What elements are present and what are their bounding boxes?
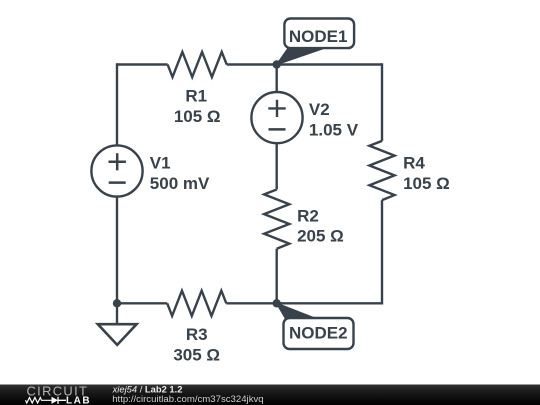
wire bottom-left segment (ground node to R3) — [117, 302, 167, 304]
V2 plus sign — [268, 100, 285, 117]
wire top-left horizontal segment — [117, 63, 168, 65]
voltage source V1 — [91, 145, 142, 196]
wire ground stub — [116, 303, 118, 324]
svg-text:R1: R1 — [185, 86, 207, 105]
svg-text:R4: R4 — [403, 154, 425, 173]
wire bottom-right segment (R3 to bottom-right corner through NODE2) — [226, 302, 382, 304]
NODE1 callout box — [284, 19, 354, 49]
svg-text:R3: R3 — [186, 325, 208, 344]
V2 minus sign — [269, 128, 286, 131]
node junction dot NODE2 — [273, 299, 281, 307]
svg-text:LAB: LAB — [66, 395, 91, 405]
svg-text:http://circuitlab.com/cm37sc32: http://circuitlab.com/cm37sc324jkvq — [112, 394, 263, 405]
wire left rail upper (top corner to V1) — [116, 63, 118, 145]
resistor R2 — [264, 190, 289, 249]
svg-text:NODE2: NODE2 — [289, 323, 348, 342]
svg-text:105 Ω: 105 Ω — [403, 174, 450, 193]
wire left rail lower (V1 to ground node) — [116, 197, 118, 304]
footer bar — [0, 385, 540, 405]
V1 minus sign — [109, 181, 126, 184]
CircuitLab logo resistor zigzag — [26, 398, 52, 404]
wire right rail upper (top-right corner to R4) — [381, 63, 383, 141]
NODE1 callout tail — [277, 49, 323, 65]
svg-text:105 Ω: 105 Ω — [174, 107, 221, 126]
svg-text:xiej54 / Lab2 1.2: xiej54 / Lab2 1.2 — [112, 384, 183, 395]
wire middle rail mid (V2 to R2) — [276, 143, 278, 189]
wire middle rail lower (R2 to NODE2) — [276, 249, 278, 304]
resistor R1 — [168, 52, 227, 77]
svg-text:1.05 V: 1.05 V — [309, 121, 359, 140]
svg-text:V2: V2 — [309, 100, 330, 119]
wire top-right horizontal segment (R1 to right corner through NODE1) — [227, 63, 382, 65]
voltage source V2 — [251, 92, 302, 143]
svg-text:305 Ω: 305 Ω — [173, 345, 220, 364]
NODE2 callout box — [284, 318, 354, 349]
NODE2 callout tail — [277, 303, 318, 321]
V1 plus sign — [109, 153, 126, 170]
node junction dot NODE1 — [273, 60, 281, 68]
svg-text:205 Ω: 205 Ω — [297, 227, 344, 246]
wire middle rail upper (NODE1 to V2) — [276, 65, 278, 93]
CircuitLab logo diode symbol — [52, 397, 59, 404]
svg-text:R2: R2 — [297, 206, 319, 225]
wire right rail lower (R4 to bottom-right corner) — [381, 200, 383, 304]
resistor R4 — [369, 141, 394, 200]
svg-text:NODE1: NODE1 — [289, 27, 348, 46]
svg-text:V1: V1 — [150, 154, 171, 173]
CircuitLab logo diode bar and wire — [58, 397, 66, 404]
svg-text:500 mV: 500 mV — [150, 174, 210, 193]
node junction dot ground — [113, 299, 121, 307]
ground symbol — [98, 324, 137, 345]
resistor R3 — [167, 291, 226, 316]
